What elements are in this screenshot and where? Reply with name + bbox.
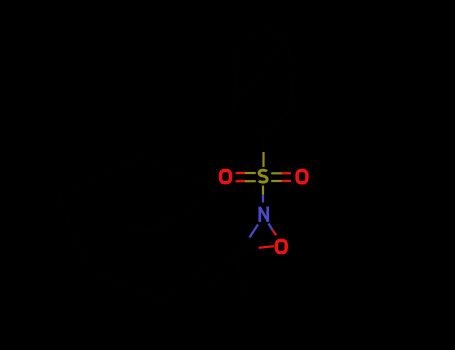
bond S-N (blue half) — [262, 195, 264, 203]
wire top bicycle — [233, 28, 294, 137]
bond N-C ring (blue half then ghost) — [250, 225, 259, 238]
N label — [260, 207, 268, 222]
wire left bicycle — [58, 158, 236, 250]
S label — [259, 170, 267, 182]
bond S=O left (double bond) — [236, 173, 256, 181]
bond N-O ring (blue half then red half) — [269, 224, 273, 231]
bond S-C up (sulfur half, olive) — [262, 152, 264, 167]
bond C-O ring (ghost half then red half) — [236, 248, 259, 250]
O left label — [221, 171, 231, 183]
wire ghost skeleton: bond CH2 half above S — [58, 28, 294, 300]
wire bottom methyls — [210, 250, 243, 295]
bond S=O right (double bond) — [271, 173, 291, 181]
bond S-N (olive half) — [262, 186, 264, 195]
O ring label — [276, 240, 286, 252]
O right label — [297, 171, 307, 183]
